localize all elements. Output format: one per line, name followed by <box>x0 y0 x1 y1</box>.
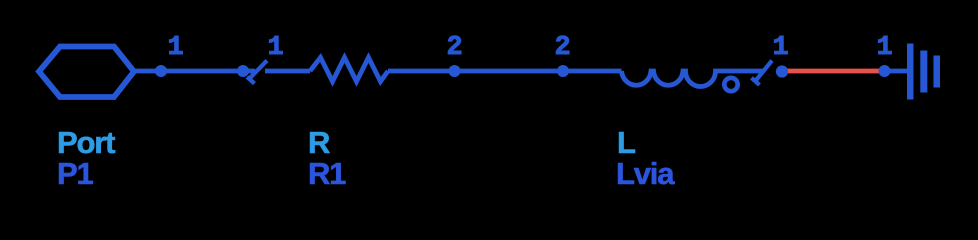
svg-text:L: L <box>617 125 635 160</box>
svg-text:1: 1 <box>773 33 789 63</box>
svg-text:Lvia: Lvia <box>616 156 675 191</box>
svg-text:2: 2 <box>555 33 571 63</box>
svg-text:Port: Port <box>57 125 115 160</box>
svg-text:1: 1 <box>877 33 893 63</box>
svg-text:P1: P1 <box>57 156 93 191</box>
svg-text:1: 1 <box>168 33 184 63</box>
svg-text:R: R <box>308 125 330 160</box>
svg-text:R1: R1 <box>308 156 346 191</box>
svg-text:2: 2 <box>447 33 463 63</box>
svg-text:1: 1 <box>268 33 284 63</box>
